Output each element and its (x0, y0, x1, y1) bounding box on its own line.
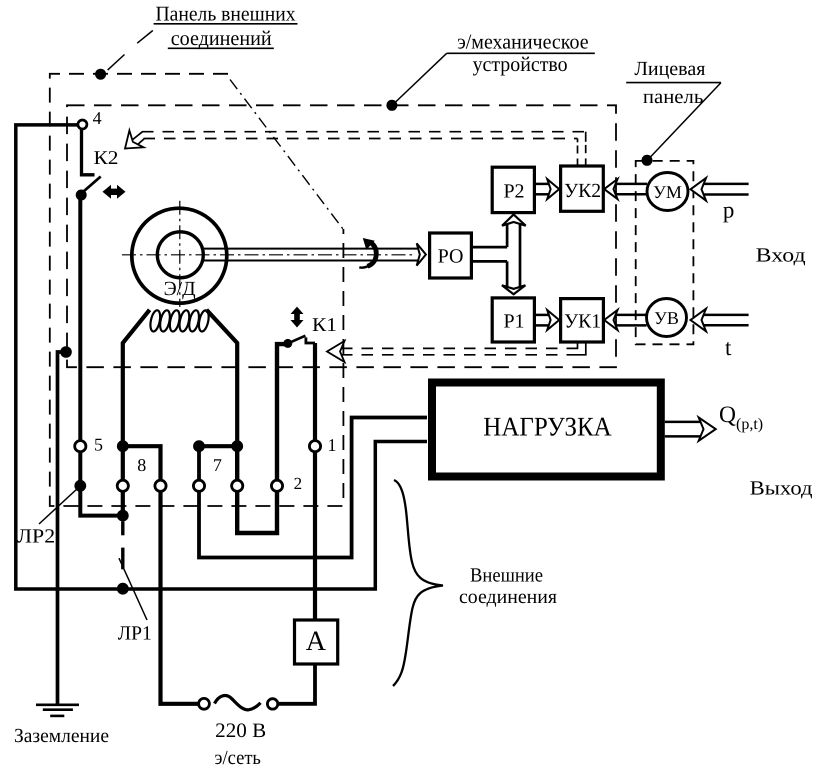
knob UV (647, 299, 687, 337)
box RO (430, 233, 472, 278)
junction dot LR2 net (117, 510, 129, 522)
svg-text:Р1: Р1 (503, 311, 524, 333)
label: e/mechanicheskoe ustroystvo (447, 29, 595, 76)
svg-text:панель: панель (643, 86, 703, 108)
panel box bevel (dash-dot diagonal) (230, 80, 343, 230)
channel RO to P1/P2 (hollow tee) (471, 224, 520, 288)
motor centerline horizontal (122, 254, 415, 256)
svg-text:Э/Д: Э/Д (164, 278, 196, 300)
feedback net UK1 to K1 (double dashed line) (341, 342, 586, 355)
shaft rotation arrow (359, 238, 376, 268)
mains contact left (199, 698, 210, 709)
svg-text:Вход: Вход (756, 245, 806, 267)
ground wire from e/mech chassis (58, 352, 67, 705)
svg-text:К2: К2 (94, 148, 119, 169)
svg-text:1: 1 (328, 435, 337, 455)
label: Litsevaya panel (626, 58, 721, 108)
svg-text:(p,t): (p,t) (736, 416, 763, 433)
e/mechanical device dashed box (67, 105, 616, 367)
wire: motor left lead down through terminal 8 (123, 310, 150, 516)
feedback arrowhead at K2 (bent hollow arrow) (125, 130, 145, 148)
arrowhead into RO (417, 243, 426, 265)
arrow P1 to UK1 (534, 310, 559, 330)
svg-text:ЛР2: ЛР2 (17, 526, 55, 548)
svg-text:УК2: УК2 (564, 180, 601, 202)
motor shaft double line (204, 249, 418, 261)
knob UM (647, 173, 688, 211)
arrow P2 to UK2 (534, 179, 559, 199)
ground symbol (36, 705, 79, 716)
wire: U loop to terminal 2 up to K1 (237, 344, 288, 533)
svg-text:p: p (723, 198, 735, 223)
terminal 1 (309, 441, 320, 452)
svg-text:8: 8 (137, 455, 146, 475)
mains contact right (267, 699, 277, 709)
terminal 5 (75, 441, 86, 452)
terminal 8 junction dot (117, 440, 129, 452)
row B terminal LR2 dot (74, 480, 86, 492)
front panel dashed box (636, 161, 694, 344)
arrow UV to UK1 (604, 310, 646, 330)
feedback arrowhead at K1 (327, 341, 345, 362)
svg-text:Р2: Р2 (503, 181, 524, 203)
svg-text:э/сеть: э/сеть (215, 747, 261, 769)
K2 lower contact dot (76, 190, 87, 201)
wire: terminal 7 down to NAGRUZKA input 1 (199, 418, 427, 558)
svg-text:t: t (725, 335, 732, 360)
feedback net UK2 to K2 (double dashed line) (142, 132, 586, 166)
svg-text:соединений: соединений (171, 26, 272, 50)
double arrowhead down to P1 (502, 285, 526, 294)
svg-text:НАГРУЗКА: НАГРУЗКА (483, 411, 612, 441)
svg-text:РО: РО (438, 246, 464, 268)
node dot on front panel box (642, 155, 653, 166)
leader LR1 (119, 558, 147, 620)
wire: terminal row A jumper 7 (199, 444, 237, 448)
arrow UM to UK2 (604, 179, 647, 199)
load box NAGRUZKA (432, 383, 661, 477)
svg-text:э/механическое: э/механическое (457, 29, 588, 53)
svg-text:5: 5 (94, 435, 103, 455)
wire: terminal 4 to left rail and bottom rail to NAGRUZKA input 2 (16, 125, 427, 589)
leader line to label e/mech (394, 53, 447, 103)
wire: motor right lead down to terminal junction (207, 310, 238, 446)
leader LR2 (39, 488, 78, 524)
svg-text:2: 2 (294, 474, 303, 493)
svg-text:УМ: УМ (653, 182, 682, 202)
chassis node dot on e/mech box (60, 346, 72, 358)
input arrow t (691, 309, 749, 332)
motor circle (electric motor E/D) (132, 208, 227, 303)
svg-text:К1: К1 (312, 315, 337, 336)
svg-text:устройство: устройство (473, 52, 568, 76)
svg-text:Выход: Выход (750, 477, 813, 499)
svg-text:Внешние: Внешние (470, 565, 543, 587)
svg-text:Лицевая: Лицевая (634, 58, 705, 80)
svg-text:220 В: 220 В (215, 720, 266, 742)
motor coil winding (149, 309, 211, 332)
leader line to label Panel vneshnih (108, 55, 125, 71)
double arrowhead up to P2 (502, 215, 526, 226)
output arrow Q (665, 418, 716, 441)
K2 actuate arrow (solid) (103, 185, 126, 199)
label: Panel vneshnih soedineniy (154, 2, 298, 50)
ammeter A (295, 620, 338, 664)
K1 fixed contact (306, 337, 315, 343)
svg-text:Заземление: Заземление (14, 725, 109, 747)
row B terminal circles (117, 480, 128, 491)
svg-text:Q: Q (719, 402, 736, 428)
svg-text:7: 7 (213, 455, 222, 475)
leader line to label front panel (649, 83, 721, 159)
K1 pivot contact dot (283, 339, 292, 348)
svg-text:УВ: УВ (654, 308, 679, 328)
wire: ammeter to mains (278, 664, 316, 704)
terminal 4 (78, 120, 87, 129)
wire: K1 to terminal 1 down to ammeter (313, 343, 317, 620)
wire: terminal 8 to mains fuse column (123, 446, 199, 704)
svg-text:Панель внешних: Панель внешних (156, 2, 296, 26)
switch K1 blade (288, 336, 306, 344)
svg-text:4: 4 (93, 108, 102, 128)
K1 actuate arrow (solid) (291, 307, 304, 328)
link LR1 (dashed removable link) (121, 522, 124, 570)
svg-text:УК1: УК1 (564, 311, 601, 333)
motor inner circle (157, 232, 203, 278)
svg-text:А: А (306, 626, 327, 657)
svg-text:ЛР1: ЛР1 (118, 623, 152, 645)
box UK1 (561, 299, 604, 342)
box P1 (492, 298, 534, 342)
motor centerline vertical (179, 201, 181, 307)
box P2 (492, 167, 534, 212)
node dot on e/mech box (386, 100, 397, 111)
input arrow p (691, 178, 749, 201)
junction dot on bottom rail (117, 583, 129, 595)
wire: terminal 5 through row B down to LR2 junction (80, 446, 123, 515)
wire: K2 to terminal 5 (78, 195, 82, 447)
mains squiggle (215, 696, 261, 710)
wire: K2 upper contact from terminal 4 (82, 125, 95, 175)
panel of external connections dashed box (50, 74, 344, 506)
switch K2 blade (81, 177, 101, 194)
brace external connections (393, 480, 443, 686)
svg-text:соединения: соединения (459, 586, 557, 608)
box UK2 (561, 166, 604, 211)
terminal 7 junction dots (193, 440, 205, 452)
node dot on external panel box (95, 69, 106, 80)
